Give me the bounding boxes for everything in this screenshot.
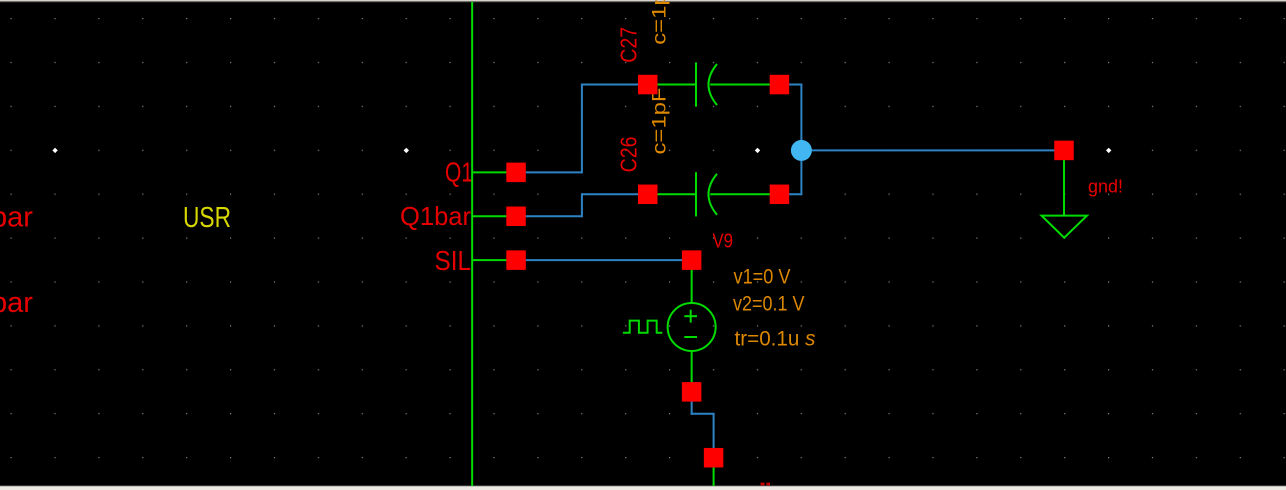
svg-text:tr=0.1u s: tr=0.1u s bbox=[735, 328, 816, 351]
svg-text:v1=0 V: v1=0 V bbox=[734, 265, 791, 288]
ground symbol gnd! bbox=[1042, 150, 1088, 237]
wire jog vertical bbox=[713, 414, 715, 458]
symbol USR right edge (green vertical line) bbox=[471, 2, 473, 486]
svg-text:C27: C27 bbox=[616, 27, 642, 63]
svg-text:V9: V9 bbox=[713, 231, 734, 253]
svg-text:Q1: Q1 bbox=[445, 157, 473, 188]
pin box gnd bbox=[1054, 141, 1074, 161]
svg-text:bar: bar bbox=[0, 287, 33, 319]
pin box bottom bbox=[704, 448, 724, 468]
pin box C27 left bbox=[638, 75, 658, 95]
wire to C26 left pin bbox=[582, 193, 648, 195]
svg-text:gnd!: gnd! bbox=[1088, 177, 1123, 197]
wire SIL to V9 bbox=[516, 259, 692, 261]
capacitor C27 bbox=[648, 62, 780, 106]
wire to C27 left pin bbox=[582, 84, 648, 86]
wire vertical through node bbox=[800, 84, 802, 196]
pin box SIL bbox=[506, 250, 526, 270]
wire node to gnd pin bbox=[801, 149, 1064, 151]
wire V9 minus down bbox=[691, 392, 693, 415]
wire Q1bar horizontal bbox=[516, 215, 582, 217]
wire C26 right pin east bbox=[779, 193, 801, 195]
svg-text:v2=0.1 V: v2=0.1 V bbox=[733, 293, 805, 316]
pin box Q1 bbox=[506, 163, 526, 183]
pin stub Q1 (green) bbox=[472, 171, 516, 173]
svg-text:SIL: SIL bbox=[435, 245, 472, 276]
pin box Q1bar bbox=[506, 207, 526, 227]
svg-text:bar: bar bbox=[0, 202, 33, 234]
wire bottom pin to edge (green) bbox=[713, 458, 715, 486]
wire C27 right pin east bbox=[779, 84, 801, 86]
pin stub Q1bar (green) bbox=[472, 215, 516, 217]
svg-text:c=1pF: c=1pF bbox=[650, 88, 671, 155]
svg-text:C26: C26 bbox=[616, 136, 642, 172]
svg-text:c=1pF: c=1pF bbox=[650, 0, 671, 45]
pin box V9 minus bbox=[682, 382, 702, 402]
capacitor C26 bbox=[648, 172, 780, 216]
svg-text:Q1bar: Q1bar bbox=[400, 201, 471, 231]
pin box C26 right bbox=[770, 185, 790, 205]
svg-text:USR: USR bbox=[183, 202, 231, 234]
pin box C27 right bbox=[770, 75, 790, 95]
node junction (filled circle) bbox=[791, 140, 812, 161]
pin box V9 plus bbox=[682, 250, 702, 270]
pin stub SIL (green) bbox=[472, 259, 516, 261]
voltage source V9 bbox=[623, 260, 716, 392]
wire Q1 horizontal bbox=[516, 171, 582, 173]
wire Q1 vertical riser bbox=[581, 84, 583, 174]
pin box C26 left bbox=[638, 185, 658, 205]
wire jog horizontal bbox=[691, 413, 715, 415]
wire Q1bar vertical riser bbox=[581, 193, 583, 217]
clipped label at bottom edge bbox=[761, 483, 765, 486]
